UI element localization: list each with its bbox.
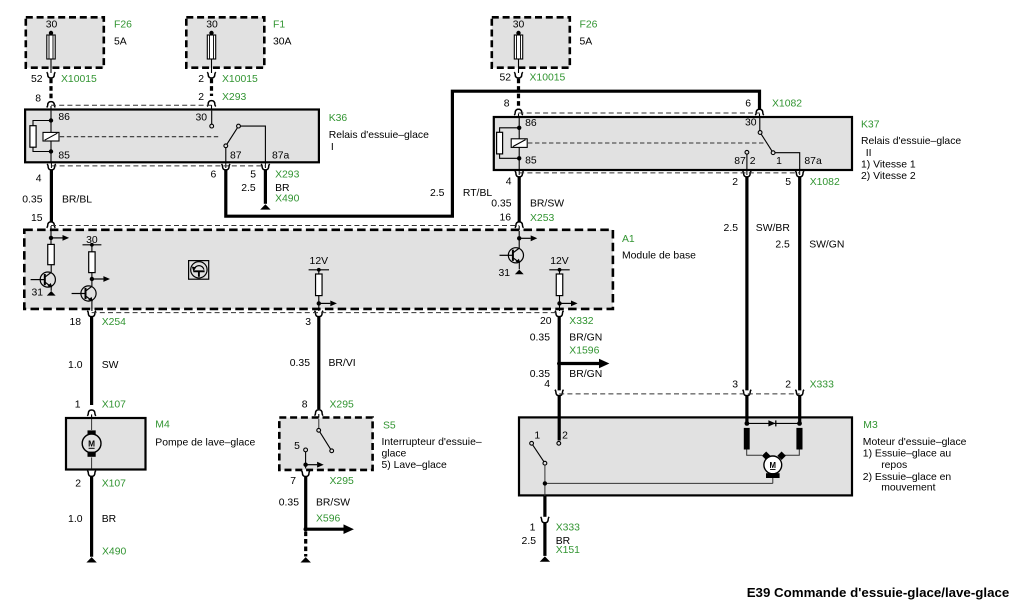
connector A1 pin 20	[555, 311, 564, 317]
svg-text:85: 85	[58, 151, 70, 162]
A1 terminal 30 tick	[83, 243, 102, 247]
K37 pin 30 lead	[759, 118, 761, 131]
label 7 / X295	[290, 476, 354, 487]
wire BR/SW K37-4 to A1-16	[518, 177, 521, 222]
A1 transistor T1	[31, 272, 56, 287]
svg-text:Module de base: Module de base	[622, 250, 696, 261]
wire BR to X151	[543, 523, 546, 556]
K36 coil	[43, 132, 59, 141]
A1 T1 emitter wire	[50, 287, 52, 291]
svg-text:F1: F1	[273, 20, 285, 31]
svg-text:X596: X596	[316, 514, 340, 525]
svg-text:1: 1	[75, 400, 81, 411]
K37 coil lead	[518, 128, 520, 159]
wire SW/GN K37-5 to M3	[798, 177, 801, 391]
svg-text:BR/SW: BR/SW	[530, 199, 564, 210]
wire SW/BR K37-2 to M3	[745, 177, 748, 391]
svg-text:2: 2	[785, 380, 791, 391]
A1 resistor R1	[48, 244, 55, 264]
svg-text:0.35: 0.35	[530, 333, 550, 344]
label pin 8 (X1082)	[504, 99, 510, 110]
svg-text:M: M	[88, 439, 95, 449]
svg-text:Relais d'essuie–glace: Relais d'essuie–glace	[329, 130, 429, 141]
connector X1082 pin 2	[743, 169, 752, 177]
K36 armature	[227, 128, 238, 145]
connector A1 pin 16	[515, 222, 524, 231]
svg-text:2: 2	[198, 74, 204, 85]
A1 T2 emitter wire	[91, 301, 93, 311]
A1 resistor R2	[89, 252, 95, 273]
S5 junction X596	[304, 527, 308, 531]
label A1	[622, 234, 635, 245]
M4 motor lead top	[91, 419, 93, 430]
K36 label 87a	[272, 151, 290, 162]
svg-text:2: 2	[732, 177, 738, 188]
M4 motor brush bottom	[88, 452, 96, 457]
svg-text:II: II	[866, 148, 872, 159]
svg-text:85: 85	[525, 156, 537, 167]
A1 T3 emitter wire	[518, 263, 520, 270]
label 0.35 BR/GN (upper)	[530, 333, 602, 344]
svg-text:2.5: 2.5	[724, 223, 739, 234]
M4 motor lead bottom	[91, 457, 93, 468]
svg-text:30A: 30A	[273, 37, 292, 48]
K37 contact pivot	[771, 151, 775, 155]
K36 coil branch wire	[33, 121, 51, 152]
svg-text:5: 5	[250, 170, 256, 181]
label 2 / X293	[198, 92, 246, 103]
S5 arrow	[306, 462, 324, 468]
svg-text:RT/BL: RT/BL	[463, 188, 492, 199]
svg-text:X107: X107	[102, 479, 126, 490]
fuse F26 5A symbol	[47, 31, 55, 73]
M3 label 1	[534, 431, 540, 442]
wire BR M4 to ground	[90, 477, 93, 557]
connector A1 pin 18	[87, 311, 96, 317]
label 0.35 BR/BL	[22, 195, 92, 206]
connector X293 pin 5	[261, 162, 270, 170]
wiper motor M3 box	[519, 417, 852, 495]
arrow to X596	[308, 524, 354, 534]
label 8 / X295	[302, 400, 354, 411]
label 2 / X107	[75, 479, 126, 490]
svg-text:2) Vitesse 2: 2) Vitesse 2	[861, 171, 916, 182]
A1 ground 31 (left)	[31, 288, 55, 299]
switch S5 box	[279, 418, 372, 470]
connector X1082 pin 5	[795, 169, 804, 177]
label 1.0 SW	[68, 360, 119, 371]
A1 junction pin16	[517, 236, 521, 240]
svg-text:0.35: 0.35	[279, 498, 299, 509]
A1 junction R4	[557, 301, 561, 305]
svg-text:2) Essuie–glace en: 2) Essuie–glace en	[863, 472, 952, 483]
svg-text:repos: repos	[881, 460, 907, 471]
relay K37 box	[494, 117, 852, 170]
K36 pin 87 lead	[225, 148, 227, 162]
svg-text:E39 Commande d'essuie-glace/la: E39 Commande d'essuie-glace/lave-glace	[747, 585, 1010, 600]
connector link X333 dashed	[559, 393, 800, 395]
label F26	[114, 20, 132, 31]
svg-text:8: 8	[35, 94, 41, 105]
M3 label 2	[562, 431, 568, 442]
M3 park wire	[545, 465, 773, 496]
svg-text:1: 1	[534, 431, 540, 442]
junction X1596	[557, 361, 561, 365]
connector X295 pin 8	[315, 410, 324, 419]
A1 wiper icon box	[189, 261, 209, 280]
svg-text:12V: 12V	[310, 256, 329, 267]
svg-text:SW/GN: SW/GN	[809, 239, 844, 250]
wire BR/SW S5 to X596	[304, 477, 307, 529]
ground X490 (M4)	[86, 557, 96, 562]
svg-text:8: 8	[504, 99, 510, 110]
M3 junction right	[797, 421, 802, 426]
svg-text:X490: X490	[102, 547, 126, 558]
connector X293 pin 8	[47, 102, 56, 110]
svg-text:M: M	[770, 461, 777, 470]
svg-text:18: 18	[69, 317, 81, 328]
connector X1082 pin 6	[755, 109, 764, 117]
label 2.5 BR / X490	[241, 183, 299, 205]
connector X333 pin 3	[743, 390, 752, 396]
fuse box F26 (right)	[492, 17, 570, 67]
svg-text:2.5: 2.5	[430, 188, 445, 199]
K36 label 87	[230, 151, 242, 162]
label 5A	[114, 37, 127, 48]
connector link X293 bottom dashed	[51, 165, 265, 167]
M3 junction park	[543, 481, 547, 485]
connector link A1 bottom dashed	[92, 312, 560, 314]
wire BR/BL K36-4 to A1-15	[50, 170, 53, 222]
connector link A1 top dashed	[51, 225, 519, 227]
svg-text:M3: M3	[863, 420, 878, 431]
svg-text:K36: K36	[329, 113, 348, 124]
connector X293 pin 4	[47, 162, 56, 170]
K36 contact 30	[210, 124, 214, 128]
svg-text:S5: S5	[383, 421, 396, 432]
K36 contact pivot	[237, 124, 241, 128]
module A1 box	[24, 230, 613, 309]
A1 12V tick (right)	[549, 268, 569, 272]
svg-text:X151: X151	[556, 545, 580, 556]
svg-text:1: 1	[530, 523, 536, 534]
connector link X293 dashed	[51, 104, 212, 106]
A1 arrow R2	[92, 276, 110, 282]
svg-text:X254: X254	[102, 317, 126, 328]
A1 R1-T1 wire	[50, 265, 52, 273]
M3 junction left	[745, 421, 750, 426]
K37 label 85	[525, 156, 537, 167]
label X1596	[569, 346, 599, 357]
svg-text:30: 30	[206, 20, 218, 31]
label 2 / X10015	[198, 74, 258, 85]
svg-text:X10015: X10015	[530, 73, 566, 84]
M3 brush bottom	[766, 473, 780, 478]
label Moteur d'essuie–glace	[863, 437, 967, 493]
svg-text:30: 30	[46, 20, 58, 31]
M3 motor circle	[764, 456, 782, 474]
wire X333-4 into M3	[558, 396, 561, 441]
label 2.5 SW/GN	[775, 239, 844, 250]
svg-text:6: 6	[211, 170, 217, 181]
S5 pin8 lead	[318, 419, 320, 428]
svg-text:2: 2	[562, 431, 568, 442]
label X490 (M4)	[102, 547, 126, 558]
label pin 5 / X293	[250, 170, 299, 181]
svg-text:X293: X293	[222, 92, 246, 103]
svg-text:20: 20	[540, 316, 552, 327]
label pin 4 (K37)	[506, 177, 512, 188]
relay K36 box	[25, 110, 319, 163]
M3 top link wire	[747, 422, 800, 424]
svg-text:BR/SW: BR/SW	[316, 498, 350, 509]
K36 wire 87a	[240, 126, 265, 162]
label 18 / X254	[69, 317, 126, 328]
title E39 Commande d'essuie-glace/lave-glace	[747, 585, 1010, 600]
wire RT/BL K36-6 to K37-6	[226, 91, 760, 216]
svg-text:4: 4	[36, 174, 42, 185]
M3 brush wire left	[747, 450, 762, 456]
wire K36-87a to ground	[264, 170, 267, 204]
connector X1082 pin 4	[515, 169, 524, 177]
K36 contact 87	[224, 144, 228, 148]
A1 arrow R4	[560, 301, 578, 307]
A1 ground 31 (right)	[498, 268, 523, 279]
svg-text:X1082: X1082	[772, 99, 802, 110]
M3 winding left	[744, 428, 750, 450]
svg-text:31: 31	[31, 288, 43, 299]
svg-text:X293: X293	[275, 170, 299, 181]
connector X107 pin 1	[87, 410, 96, 419]
svg-text:30: 30	[195, 113, 207, 124]
K36 label 85	[58, 151, 70, 162]
A1 wiper icon	[191, 262, 207, 278]
K37 armature	[761, 134, 772, 151]
svg-text:0.35: 0.35	[491, 199, 511, 210]
connector link X1082 top dashed	[519, 112, 760, 114]
K36 label 30	[195, 113, 207, 124]
connector A1 pin 3	[315, 311, 324, 317]
label S5	[383, 421, 396, 432]
label 52 / X10015 (right)	[499, 73, 565, 84]
A1 arrow pin16	[519, 235, 537, 241]
A1 pin16 wire	[518, 231, 520, 248]
svg-text:K37: K37	[861, 120, 880, 131]
label 30 (F26 right terminal)	[513, 20, 525, 31]
wire M3 pin1 exit	[543, 496, 546, 517]
label 30 (F26 left terminal)	[46, 20, 58, 31]
svg-text:2.5: 2.5	[775, 239, 790, 250]
K37 label 87a	[804, 156, 822, 167]
svg-text:86: 86	[58, 112, 70, 123]
svg-text:7: 7	[290, 476, 296, 487]
svg-text:1) Vitesse 1: 1) Vitesse 1	[861, 160, 916, 171]
wire dashed to ground (S5)	[304, 532, 307, 557]
M3 winding right	[796, 428, 802, 450]
K36 junction 85	[49, 149, 53, 153]
A1 pin15 wire	[50, 231, 52, 244]
svg-text:2: 2	[750, 156, 756, 167]
K36 pin 30 lead	[211, 111, 213, 125]
svg-text:SW: SW	[102, 360, 119, 371]
label X596	[316, 514, 340, 525]
svg-text:6: 6	[745, 99, 751, 110]
M3 switch blade	[533, 445, 544, 462]
svg-text:2.5: 2.5	[522, 536, 537, 547]
label Pompe de lave–glace	[155, 437, 255, 448]
label pin 4 (X333)	[544, 379, 550, 390]
K37 junction 86	[517, 126, 521, 130]
svg-text:2: 2	[198, 92, 204, 103]
K36 pin 85 lead	[50, 152, 52, 163]
svg-text:F26: F26	[580, 20, 598, 31]
A1 resistor R4	[556, 274, 563, 296]
S5 contact 5	[304, 448, 308, 452]
label 2.5 SW/BR	[724, 223, 791, 234]
svg-text:BR: BR	[275, 183, 290, 194]
connector X295 pin 7	[301, 471, 310, 477]
K37 wire 87a	[775, 153, 800, 169]
fuse box F1 (middle)	[186, 17, 264, 67]
A1 12V wire (right)	[559, 270, 561, 311]
svg-text:F26: F26	[114, 20, 132, 31]
K37 coil branch wire	[500, 128, 520, 159]
wire dashed F26 to X1082	[517, 79, 520, 110]
label pin 3	[305, 317, 311, 328]
K36 label 86	[58, 112, 70, 123]
label K36	[329, 113, 348, 124]
A1 resistor R3	[316, 274, 323, 296]
fuse F26 5A symbol (right)	[514, 31, 522, 73]
M3 brush left	[762, 451, 770, 459]
svg-text:Relais d'essuie–glace: Relais d'essuie–glace	[861, 136, 961, 147]
label 0.35 BR/GN (lower)	[530, 369, 602, 380]
M4 motor brush top	[88, 430, 96, 435]
connector X107 pin 2	[87, 471, 96, 477]
svg-text:2.5: 2.5	[241, 183, 256, 194]
svg-text:8: 8	[302, 400, 308, 411]
S5 junction	[303, 463, 307, 467]
svg-text:X295: X295	[330, 476, 354, 487]
label pin 8	[35, 94, 41, 105]
A1 junction R2	[90, 277, 94, 281]
svg-text:87a: 87a	[804, 156, 822, 167]
label pin 2 / pin 5 / X1082	[732, 177, 840, 188]
arrow to X1596	[561, 359, 609, 369]
A1 label 12V (mid)	[310, 256, 329, 267]
svg-text:1) Essuie–glace au: 1) Essuie–glace au	[863, 449, 952, 460]
A1 transistor T3	[500, 248, 524, 263]
A1 12V wire (mid)	[318, 270, 320, 311]
K37 label 30	[745, 118, 757, 129]
svg-text:5) Lave–glace: 5) Lave–glace	[382, 460, 447, 471]
connector X1082 pin 8	[514, 109, 523, 117]
svg-text:I: I	[331, 142, 334, 153]
svg-text:16: 16	[499, 213, 511, 224]
M3 contact 2	[557, 441, 561, 445]
K37 pin 86 lead	[518, 118, 520, 128]
K37 label 87 | 2	[734, 156, 755, 167]
label Relais d'essuie–glace I	[329, 130, 429, 153]
label Relais d'essuie–glace II	[861, 136, 961, 182]
svg-text:BR/GN: BR/GN	[569, 333, 602, 344]
svg-text:3: 3	[305, 317, 311, 328]
label pin 15	[31, 213, 43, 224]
svg-text:0.35: 0.35	[22, 195, 42, 206]
ground (S5 column)	[301, 557, 311, 562]
label pin 6	[211, 170, 217, 181]
svg-text:5A: 5A	[114, 37, 127, 48]
svg-text:12V: 12V	[550, 256, 569, 267]
connector X293 pin 2	[207, 101, 216, 110]
fuse box F26 (left)	[26, 17, 104, 67]
svg-text:X107: X107	[102, 400, 126, 411]
label pin 4	[36, 174, 42, 185]
label 0.35 BR/VI	[290, 358, 356, 369]
label 52 / X10015	[31, 74, 97, 85]
connector link X1082 bottom dashed	[519, 172, 800, 174]
label 5A (right)	[580, 37, 593, 48]
A1 arrow R3	[319, 301, 337, 307]
connector X333 pin 2	[795, 390, 804, 396]
label 20 / X332	[540, 316, 594, 327]
svg-text:3: 3	[732, 380, 738, 391]
K37 coil resistor	[497, 132, 503, 154]
svg-text:X10015: X10015	[222, 74, 258, 85]
connector X333 pin 4	[555, 390, 564, 396]
svg-text:4: 4	[506, 177, 512, 188]
S5 contact top	[317, 428, 321, 432]
M3 diode	[768, 420, 775, 426]
svg-text:X295: X295	[330, 400, 354, 411]
label pin 6 / X1082	[745, 99, 802, 110]
label 1.0 BR	[68, 514, 117, 525]
label 30A	[273, 37, 292, 48]
svg-text:2: 2	[75, 479, 81, 490]
connector X10015 pin 52	[47, 72, 56, 78]
svg-text:52: 52	[499, 73, 511, 84]
label Module de base	[622, 250, 696, 261]
M3 contact blade end	[543, 461, 547, 465]
label 30 (F1 terminal)	[206, 20, 218, 31]
A1 R2-T2 wire	[91, 273, 93, 287]
label M3	[863, 420, 878, 431]
svg-text:SW/BR: SW/BR	[756, 223, 791, 234]
svg-text:15: 15	[31, 213, 43, 224]
svg-text:5A: 5A	[580, 37, 593, 48]
pump M4 box	[66, 418, 146, 470]
K37 label 1	[776, 156, 782, 167]
S5 switch blade	[320, 432, 331, 449]
wire dashed F1 to X293	[210, 79, 213, 96]
wire X333-3 into M3	[745, 396, 748, 424]
svg-text:1.0: 1.0	[68, 514, 83, 525]
label 3 / 2 / X333	[732, 380, 834, 391]
label 0.35 BR/SW / 16 / X253	[491, 199, 564, 225]
K36 actuation dashed line	[60, 136, 220, 138]
svg-text:M4: M4	[155, 420, 170, 431]
svg-text:X332: X332	[569, 316, 593, 327]
svg-text:X490: X490	[275, 194, 299, 205]
svg-text:BR/GN: BR/GN	[569, 369, 602, 380]
A1 label 12V (right)	[550, 256, 569, 267]
label X151	[556, 545, 580, 556]
wire BR/GN A1-20 upper	[558, 317, 561, 391]
label F26 (right)	[580, 20, 598, 31]
svg-text:mouvement: mouvement	[881, 482, 935, 493]
K36 junction 86	[49, 118, 53, 122]
svg-text:1: 1	[776, 156, 782, 167]
